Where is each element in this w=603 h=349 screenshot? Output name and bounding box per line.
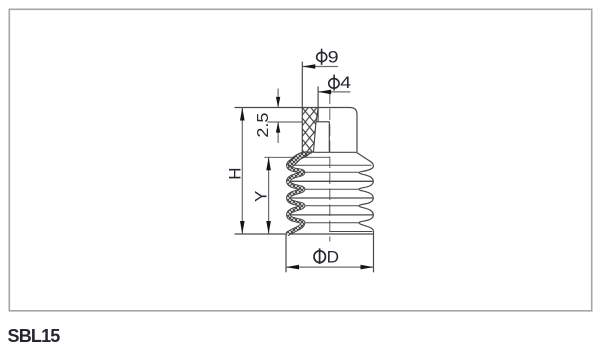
wire skirt-bottom edge (288, 164, 371, 166)
svg-text:H: H (225, 168, 244, 180)
dimension phiD (286, 266, 374, 268)
hatched nipple wall cross-section (302, 108, 318, 152)
svg-text:D: D (327, 248, 339, 267)
wire equator 1 (291, 180, 373, 182)
dimension 2.5 (277, 89, 279, 108)
wire groove 1 (302, 171, 359, 173)
wire bottom inner edge (330, 231, 373, 233)
bellows right outer profile (357, 153, 374, 234)
svg-text:2.5: 2.5 (255, 112, 272, 137)
svg-text:4: 4 (340, 73, 351, 92)
wire equator 3 (291, 214, 373, 216)
wire groove 2 (302, 188, 359, 190)
wire groove 4 (302, 222, 359, 224)
label phi9 (317, 48, 339, 67)
cup lip right side + phiD extension (373, 234, 375, 272)
wire groove 3 (302, 205, 359, 207)
cut face at centerline (328, 122, 330, 153)
dimension Y (268, 157, 270, 234)
svg-text:9: 9 (328, 48, 339, 67)
label phiD (314, 248, 339, 267)
cap bottom edge (314, 151, 358, 153)
label phi4 (329, 73, 352, 92)
cup lip top edge + H/Y bottom extension line (235, 233, 374, 235)
dimension phi4 (318, 91, 350, 93)
nipple left edge + phi9 extension line (301, 62, 303, 153)
bore bottom (316, 121, 330, 123)
svg-text:Y: Y (251, 191, 270, 202)
wire equator 2 (291, 197, 373, 199)
2.5 bottom extension line (267, 121, 302, 123)
centerline (329, 93, 331, 242)
extension line Y top (264, 156, 330, 158)
svg-text:SBL15: SBL15 (8, 326, 61, 346)
dimension H (241, 108, 243, 235)
suction cup top face (235, 108, 358, 153)
cup lip left side + phiD extension (285, 234, 287, 272)
phi4 extension + bore wall (317, 86, 319, 121)
dimension phi9 (302, 66, 338, 68)
